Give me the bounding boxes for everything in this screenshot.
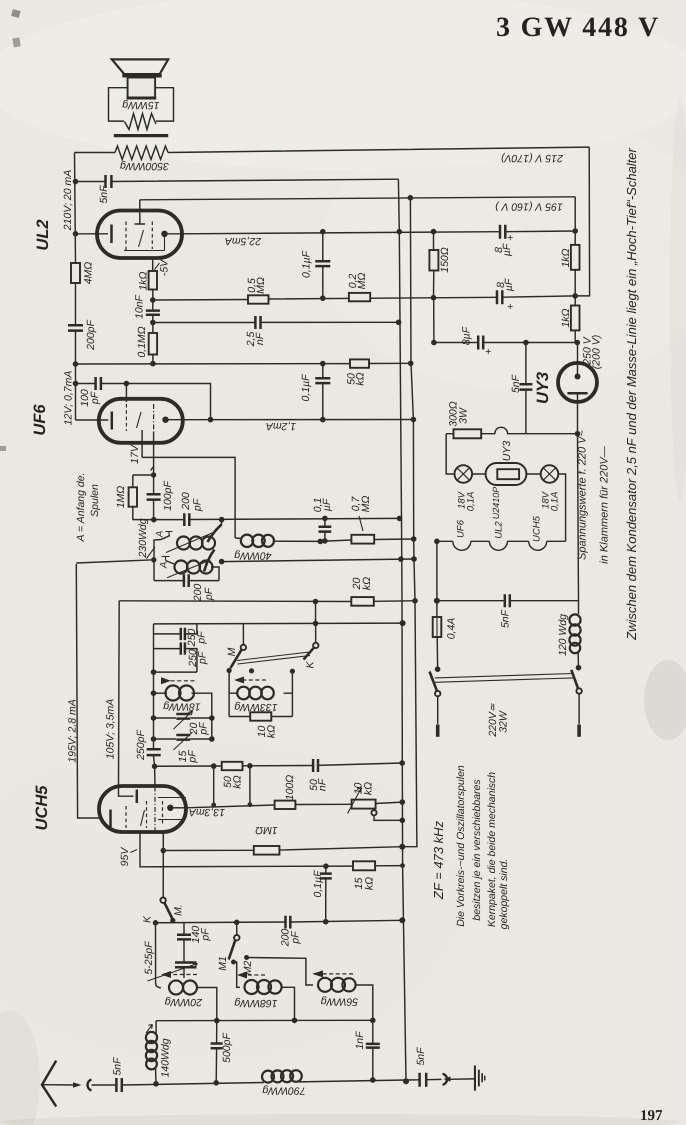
svg-text:0,1MΩ: 0,1MΩ: [136, 326, 148, 357]
resistor 1k (upper, -5V): [138, 271, 158, 291]
svg-text:790WWg: 790WWg: [262, 1085, 305, 1097]
heater bump UCH5: [529, 541, 547, 550]
svg-text:12V; 0,7mA: 12V; 0,7mA: [63, 371, 75, 426]
wire M2 to 56WWg: [247, 958, 313, 986]
potentiometer 10k: [348, 782, 406, 823]
speaker: [112, 59, 168, 99]
inductor 18WWg: [154, 686, 212, 719]
UCH5 internal shield lines: [158, 798, 186, 820]
svg-text:pF: pF: [203, 587, 215, 601]
wire 1nF leg: [372, 1020, 374, 1080]
wire mixer line (y519.6): [132, 518, 399, 519]
node UL2 cathode-bus: [73, 231, 79, 237]
svg-text:M: M: [226, 647, 238, 656]
node col/0,5M: [150, 297, 156, 303]
UL2 grid tick: [139, 230, 144, 247]
svg-text:pF: pF: [89, 391, 101, 405]
capacitor 200pF (osc tank): [154, 574, 219, 602]
resistor 1M (UCH5 osc grid): [254, 824, 280, 855]
wire AVC line (y922): [156, 920, 403, 923]
svg-text:10nF: 10nF: [134, 294, 146, 319]
tube UF6: [31, 399, 183, 443]
svg-text:µF: µF: [501, 243, 513, 256]
UCH5 hexode anode: [167, 805, 173, 811]
ballast U2410P: [486, 463, 527, 519]
svg-text:105V; 3,5mA: 105V; 3,5mA: [105, 699, 117, 760]
wire 250V line (y342.5): [434, 342, 575, 344]
capacitor 50nF: [308, 759, 329, 791]
svg-text:UF6: UF6: [456, 519, 467, 538]
lamp 18V 0,1A (left): [455, 465, 477, 511]
antenna: [42, 1061, 92, 1107]
svg-text:kΩ: kΩ: [364, 877, 376, 890]
UF6 grid1 entry + dashed: [125, 384, 127, 403]
svg-text:U2410P: U2410P: [491, 487, 501, 520]
wire bus P (chassis bus): [398, 179, 400, 430]
trimmer 20pF: [154, 711, 212, 736]
heater bump UF6: [453, 541, 471, 550]
svg-text:8µF: 8µF: [461, 326, 473, 345]
svg-text:18WWg: 18WWg: [163, 701, 201, 713]
wire right rail down to 1k junction: [575, 147, 589, 296]
switch K (IF): [304, 602, 319, 669]
svg-text:32W: 32W: [498, 710, 510, 733]
dashed arrow (56WWg core): [312, 970, 353, 977]
wire heater top line: [446, 427, 577, 433]
capacitor 200pF (series, mixer line): [180, 492, 204, 526]
wire UCH5 anode line 13,3mA: [186, 802, 402, 808]
svg-text:pF: pF: [192, 498, 204, 512]
switch M (IF): [226, 623, 246, 668]
svg-text:0,1A: 0,1A: [466, 492, 477, 512]
svg-text:(200 V): (200 V): [591, 335, 603, 369]
svg-text:40WWg: 40WWg: [234, 550, 272, 562]
resistor 3500WWg: [115, 146, 169, 172]
svg-text:22,5mA: 22,5mA: [225, 235, 262, 247]
UL2 anode: [161, 231, 167, 237]
capacitor 5nF (rectifier): [510, 343, 532, 434]
wire 12V line / 100pF line: [76, 384, 211, 420]
mains switch (left pole): [430, 666, 441, 736]
wire left bus with 4M and 200pF: [75, 153, 76, 421]
resistor 0,7M: [320, 496, 413, 544]
svg-text:56WWg: 56WWg: [321, 995, 359, 1007]
resistor 1k (upper right): [560, 197, 580, 296]
inductor 140Wdg: [146, 1021, 172, 1084]
inductor 790WWg: [262, 1070, 306, 1096]
IF rail: [154, 624, 156, 786]
node anode line / bus P: [397, 229, 403, 235]
fuse 0,4A: [433, 617, 458, 639]
wire UCH5 grid line (y766): [155, 763, 403, 766]
node 1k chain mid: [572, 293, 578, 299]
svg-text:kΩ: kΩ: [232, 775, 244, 788]
resistor 50k (AVC): [346, 359, 370, 385]
svg-text:nF: nF: [254, 332, 266, 345]
svg-text:133WWg: 133WWg: [234, 701, 277, 713]
capacitor 5nF (antenna): [112, 1057, 124, 1092]
svg-text:µF: µF: [321, 498, 333, 511]
capacitor 250pF (second): [154, 642, 209, 672]
svg-text:+: +: [507, 232, 513, 244]
svg-text:M.: M.: [173, 904, 185, 916]
svg-text:M1: M1: [217, 956, 229, 971]
UF6 cathode: [76, 419, 109, 421]
wire UL2 anode line 22,5mA: [183, 231, 575, 234]
capacitor 2,5nF: [245, 316, 266, 347]
svg-text:1kΩ: 1kΩ: [560, 248, 572, 267]
svg-text:5-25pF: 5-25pF: [143, 941, 155, 975]
resistor 20k: [351, 577, 374, 606]
UCH5 grid dashed (g2): [146, 801, 148, 828]
UCH5 grid dash-dot (g3 from rail): [154, 787, 156, 831]
inductor 20WWg: [156, 923, 217, 1021]
svg-text:3W: 3W: [458, 407, 470, 424]
UL2 grid3 dashed: [151, 222, 153, 250]
output transformer box 15WWg: [109, 88, 174, 130]
svg-text:500pF: 500pF: [221, 1033, 233, 1063]
node anode line end: [572, 228, 578, 234]
wire 2,5nF line: [153, 321, 399, 323]
svg-text:200pF: 200pF: [85, 320, 97, 351]
capacitor 5nF (anode bypass): [98, 175, 111, 204]
svg-text:pF: pF: [290, 931, 302, 945]
wire fuse column: [436, 541, 439, 666]
svg-text:5nF: 5nF: [112, 1057, 124, 1076]
lamp 18V 0,1A (right): [541, 465, 561, 511]
resistor 100 ohm: [275, 775, 296, 809]
node anode line / 150 ohm: [431, 229, 437, 235]
svg-text:140Wdg: 140Wdg: [160, 1038, 172, 1077]
svg-text:3 GW 448 V: 3 GW 448 V: [496, 12, 660, 43]
wire 5nF line to 120Wdg: [437, 600, 579, 602]
lamp row: [446, 434, 565, 542]
svg-text:20WWg: 20WWg: [165, 996, 204, 1008]
resistor 10k (IF): [229, 712, 292, 738]
node left bus / 5nF: [73, 179, 79, 185]
earth socket: [443, 1074, 448, 1085]
capacitor 100pF (osc): [147, 432, 174, 520]
svg-text:MΩ: MΩ: [360, 496, 372, 513]
UL2 grid2 top entry: [135, 200, 146, 224]
inductor 168WWg: [234, 962, 295, 1021]
node K: [153, 920, 159, 926]
UCH5 grid tick: [141, 810, 145, 826]
svg-text:0,1µF: 0,1µF: [312, 870, 324, 898]
node M contact: [227, 668, 232, 673]
wire 50k line: [76, 362, 411, 365]
svg-text:UY3: UY3: [534, 372, 552, 404]
svg-text:0,1µF: 0,1µF: [300, 374, 312, 402]
trimmer 15pF: [154, 718, 212, 764]
svg-text:pF: pF: [197, 651, 209, 665]
wire top 215V rail: [75, 147, 590, 152]
dashed arrow (168WWg core): [237, 972, 265, 979]
resistor 1M (UF6 grid leak): [115, 475, 154, 520]
svg-text:Spulen: Spulen: [89, 484, 101, 517]
svg-text:in Klammern für 220V—: in Klammern für 220V—: [599, 445, 611, 563]
wire tuning bottom line (y1020): [156, 1019, 373, 1021]
svg-text:UL2: UL2: [34, 219, 52, 250]
svg-text:1kΩ: 1kΩ: [560, 308, 572, 327]
resistor 50k (UCH5): [222, 762, 244, 789]
svg-text:K: K: [305, 661, 317, 669]
wire 1M line (y850): [163, 832, 417, 851]
label 95V: [119, 847, 137, 867]
wire IF box top: [154, 671, 197, 673]
inductor 56WWg: [318, 978, 373, 1021]
wire UY3 cathode down: [578, 402, 579, 601]
ground: [474, 1066, 486, 1091]
capacitor 8uF (1st electrolytic): [493, 225, 513, 257]
wire 15k line (y866): [140, 832, 403, 867]
transformer core bars: [114, 134, 168, 137]
dashed arrow (18WWg core): [161, 677, 195, 684]
svg-text:95V: 95V: [119, 847, 131, 867]
svg-text:µF: µF: [503, 278, 515, 291]
svg-text:5nF: 5nF: [500, 609, 512, 628]
wire UL2 column: [152, 258, 154, 364]
capacitor 0,1uF (UL2 anode-screen): [301, 229, 331, 301]
capacitor 500pF: [211, 1021, 233, 1083]
wire 5nF line: [76, 179, 399, 181]
capacitor 100pF (UF6 grid): [79, 377, 101, 407]
svg-text:5nF: 5nF: [98, 185, 110, 204]
svg-text:210V; 20 mA: 210V; 20 mA: [62, 170, 74, 232]
mains switch (right pole): [571, 665, 582, 737]
svg-text:195 V (160 V ): 195 V (160 V ): [495, 200, 563, 212]
wire 0,5M line: [153, 296, 575, 300]
resistor 1k (lower right): [560, 296, 580, 363]
svg-text:pF: pF: [198, 722, 210, 736]
band switch wavechange levers: [204, 520, 222, 572]
svg-text:MΩ: MΩ: [255, 277, 267, 294]
svg-text:UY3: UY3: [501, 441, 513, 462]
capacitor 250pF (top): [154, 624, 208, 647]
wire UF6 anode line 1,2mA: [183, 419, 414, 421]
inductor 230Wdg (osc primary): [137, 518, 215, 580]
capacitor 5nF (chassis-earth): [415, 1047, 427, 1087]
UCH5 cathode: [109, 810, 112, 828]
svg-text:0,1µF: 0,1µF: [301, 250, 313, 278]
capacitor 200pF (left bus): [68, 320, 97, 351]
svg-text:-5V: -5V: [159, 259, 171, 276]
svg-text:pF: pF: [200, 928, 212, 942]
capacitor 200pF (AVC series): [280, 916, 302, 948]
svg-text:195V; 2,8 mA: 195V; 2,8 mA: [67, 699, 79, 762]
svg-text:kΩ: kΩ: [363, 782, 375, 795]
node grid line / bus Q: [408, 195, 414, 201]
capacitor 5nF (mains): [500, 594, 512, 628]
wire antenna/earth line: [92, 1079, 475, 1085]
heater bump UL2: [489, 541, 507, 550]
svg-text:ZF = 473 kHz: ZF = 473 kHz: [431, 820, 446, 900]
UCH5 triode anode: [119, 784, 134, 797]
svg-text:1kΩ: 1kΩ: [138, 271, 150, 290]
svg-text:1MΩ: 1MΩ: [255, 824, 278, 836]
resistor 0,5M: [246, 277, 269, 304]
svg-text:+: +: [507, 301, 513, 313]
svg-text:5nF: 5nF: [510, 374, 522, 393]
svg-text:13,3mA: 13,3mA: [189, 806, 225, 818]
svg-text:kΩ: kΩ: [361, 577, 373, 590]
svg-text:pF: pF: [196, 631, 208, 645]
capacitor 10nF: [134, 294, 160, 319]
wire 195V bus: [76, 564, 99, 818]
svg-text:250pF: 250pF: [135, 730, 147, 761]
switch M2 contact: [242, 955, 254, 975]
svg-text:3500WWg: 3500WWg: [120, 160, 169, 172]
svg-text:kΩ: kΩ: [266, 725, 278, 738]
capacitor 8uF (2nd electrolytic): [495, 278, 515, 313]
svg-text:0,4A: 0,4A: [446, 618, 458, 640]
vertical taps to anode line: [214, 766, 250, 805]
svg-text:0,1A: 0,1A: [550, 492, 561, 512]
switch M1: [217, 922, 240, 970]
svg-text:4MΩ: 4MΩ: [83, 262, 95, 285]
svg-text:A: A: [159, 562, 170, 569]
UF6 anode: [162, 417, 168, 423]
capacitor 1nF: [354, 1031, 380, 1050]
UF6 grid tick: [137, 412, 142, 428]
svg-text:kΩ: kΩ: [355, 372, 367, 385]
svg-text:+: +: [485, 346, 491, 358]
tube UL2: [34, 211, 182, 259]
resistor 15k: [353, 861, 376, 890]
svg-text:Zwischen dem Kondensator 2,5 n: Zwischen dem Kondensator 2,5 nF und der …: [624, 147, 639, 640]
wire IF top line (y623.5): [154, 622, 403, 625]
osc A tick: [147, 547, 156, 559]
svg-text:100Ω: 100Ω: [284, 775, 296, 801]
svg-text:MΩ: MΩ: [356, 273, 368, 290]
capacitor 0,1uF (AVC): [312, 866, 332, 922]
svg-text:besitzen je ein verschiebbares: besitzen je ein verschiebbares: [471, 779, 483, 921]
inductor 133WWg: [229, 671, 292, 717]
svg-text:A = Anfang de.: A = Anfang de.: [75, 473, 87, 543]
capacitor 0,1uF (osc cathode): [312, 498, 333, 544]
capacitor 250pF (rail series): [135, 730, 161, 761]
svg-text:150Ω: 150Ω: [439, 247, 451, 273]
svg-text:1nF: 1nF: [354, 1031, 366, 1050]
resistor 0,1M: [136, 326, 157, 357]
svg-text:120 Wdg: 120 Wdg: [557, 614, 569, 656]
svg-text:UL2: UL2: [494, 521, 505, 539]
UCH5 grid dashed (g1): [125, 806, 127, 828]
resistor 150 ohm: [429, 232, 451, 343]
dashed arrow (133WWg core): [234, 677, 266, 684]
node 0,5M line / 150 ohm column: [431, 295, 437, 301]
capacitor 0,1uF (2nd): [300, 361, 330, 423]
label -5V: [155, 259, 171, 276]
svg-text:K: K: [142, 915, 154, 923]
UL2 cathode: [76, 233, 109, 235]
svg-text:5nF: 5nF: [415, 1047, 427, 1066]
UL2 grid1 dashed: [125, 222, 127, 251]
switch link (mechanical): [237, 652, 310, 664]
UL2 internal bottom rail: [124, 234, 165, 251]
wire heater chain (bumps): [437, 540, 566, 542]
svg-text:UCH5: UCH5: [532, 515, 543, 542]
UF6 g1 exit: [141, 430, 143, 457]
svg-text:197: 197: [640, 1108, 663, 1124]
switch M (AVC): [160, 851, 184, 924]
inductor 120Wdg: [557, 601, 581, 666]
wire A-line to osc tank: [76, 560, 154, 563]
svg-text:Kernpaket, die beide mechanisc: Kernpaket, die beide mechanisch: [486, 772, 498, 927]
resistor 0,2M: [347, 273, 370, 302]
wire UL2 grid line 195V(160V): [140, 197, 575, 200]
resistor 300 ohm 3W: [448, 401, 482, 438]
tube UCH5: [33, 785, 186, 832]
wire 105V bus: [118, 601, 121, 784]
capacitor 140pF: [177, 922, 212, 947]
svg-text:15WWg: 15WWg: [122, 99, 160, 111]
UF6 grid3 dash-dot: [153, 404, 155, 432]
svg-text:230Wdg: 230Wdg: [137, 518, 149, 558]
capacitor 8uF (3rd electrolytic): [461, 326, 492, 358]
inductor 40WWg: [234, 535, 320, 562]
svg-text:100pF: 100pF: [162, 481, 174, 511]
svg-text:UF6: UF6: [31, 404, 49, 436]
wire bus Q: [410, 198, 417, 847]
svg-text:17V: 17V: [129, 444, 141, 464]
svg-text:215 V (170V): 215 V (170V): [501, 152, 564, 164]
svg-text:200: 200: [180, 492, 192, 511]
svg-text:nF: nF: [317, 778, 329, 791]
svg-text:UCH5: UCH5: [33, 785, 51, 831]
inductor osc secondary: [159, 557, 220, 581]
trimmer 5-25pF: [143, 941, 198, 981]
svg-text:1,2mA: 1,2mA: [266, 420, 296, 432]
svg-text:1MΩ: 1MΩ: [115, 486, 127, 509]
wire osc switch line (y560): [222, 559, 414, 562]
svg-text:pF: pF: [187, 750, 199, 764]
resistor 4MOhm: [71, 262, 95, 285]
tube UY3: [534, 363, 597, 404]
switch mechanical link: [435, 674, 574, 683]
wire 17V line: [142, 457, 235, 538]
UCH5 grid dashed (g4): [162, 801, 164, 824]
svg-text:A: A: [155, 531, 166, 538]
svg-text:168WWg: 168WWg: [234, 997, 277, 1009]
svg-text:gekoppelt sind.: gekoppelt sind.: [498, 859, 510, 930]
dashed arrow (20WWg core): [161, 971, 197, 978]
wire 20k line: [119, 600, 415, 603]
svg-text:Die Vorkreis-~und Oszillatorsp: Die Vorkreis-~und Oszillatorspulen: [455, 765, 467, 927]
